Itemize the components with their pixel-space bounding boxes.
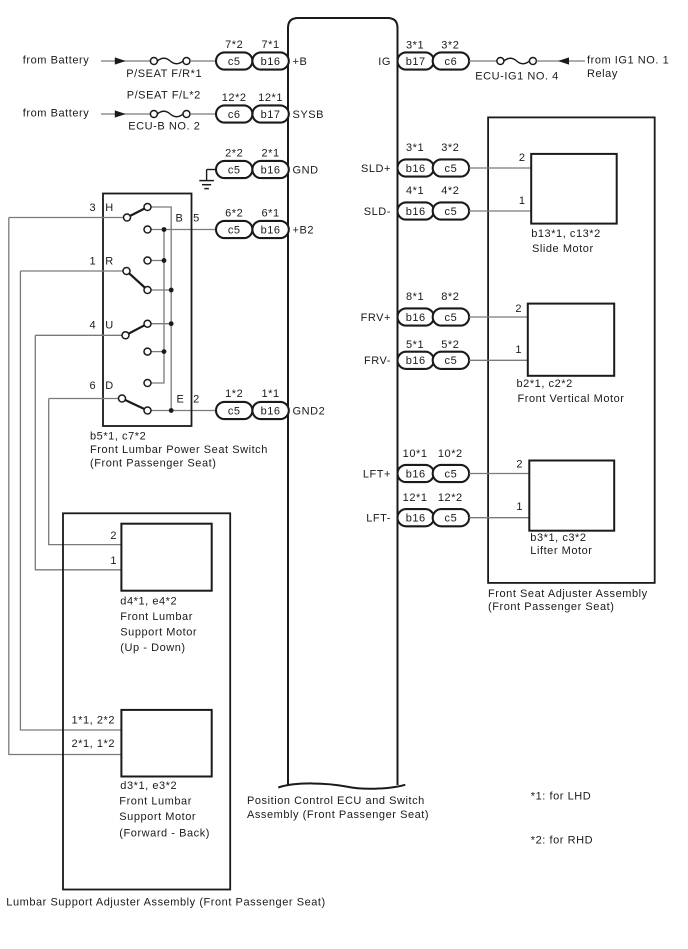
svg-text:Position Control ECU and Switc: Position Control ECU and Switch: [247, 795, 425, 807]
svg-text:2: 2: [519, 152, 526, 164]
contact H common: [124, 214, 131, 221]
pin label 8*2: [441, 291, 459, 303]
junction bus B at +B2 output: [162, 227, 167, 232]
pin label 5*2: [441, 339, 459, 351]
pin SYSB: [293, 109, 325, 121]
pin label 4*1: [406, 185, 424, 197]
svg-text:P/SEAT F/R*1: P/SEAT F/R*1: [126, 68, 202, 80]
connector b16 (SLD- row): [398, 202, 434, 219]
motor M4 Front Lumbar Support Motor (Up-Down) box: [121, 524, 211, 591]
svg-text:Slide Motor: Slide Motor: [532, 243, 594, 255]
svg-text:3*1: 3*1: [406, 142, 424, 154]
label Front Seat Adjuster Assembly: [488, 588, 648, 613]
fuse P/SEAT F/R*1: [150, 58, 190, 65]
motor M5 Front Lumbar Support Motor (Forward-Back) box: [121, 710, 211, 777]
arrow current direction +B: [115, 57, 126, 64]
svg-text:4*2: 4*2: [441, 185, 459, 197]
svg-text:Lifter Motor: Lifter Motor: [530, 545, 592, 557]
svg-text:*1: for LHD: *1: for LHD: [531, 791, 591, 803]
svg-text:b3*1, c3*2: b3*1, c3*2: [530, 532, 586, 544]
contact H lower (+B2): [144, 226, 151, 233]
pin label 1 (switch R): [89, 256, 96, 268]
label d4*1, e4*2 Front Lumbar Support Motor Up-Down: [120, 595, 197, 654]
wire U lower contact to bus B: [148, 351, 165, 353]
junction bus B at U lower: [162, 349, 167, 354]
pin label 7*1: [262, 39, 280, 51]
pin LFT-: [366, 513, 391, 525]
svg-text:IG: IG: [378, 56, 391, 68]
svg-text:3*2: 3*2: [441, 142, 459, 154]
svg-text:6: 6: [89, 380, 96, 392]
contact R lower: [144, 287, 151, 294]
arrow current direction SYSB: [115, 110, 126, 117]
contact U common: [122, 332, 129, 339]
pin label 10*2: [438, 448, 463, 460]
svg-text:2*2: 2*2: [225, 147, 243, 159]
svg-text:b16: b16: [261, 405, 281, 417]
svg-text:SLD+: SLD+: [361, 163, 391, 175]
label from IG1 NO. 1 Relay: [587, 54, 669, 80]
svg-text:5: 5: [193, 212, 200, 224]
pin +B: [293, 56, 308, 68]
pin number 2 (Front Vertical Motor): [515, 303, 522, 315]
svg-text:c5: c5: [445, 513, 458, 525]
pin label 10*1: [403, 448, 428, 460]
pin label E (switch bus): [177, 393, 185, 405]
svg-text:Front Seat Adjuster Assembly: Front Seat Adjuster Assembly: [488, 588, 648, 600]
connector c5 (SLD+ row): [433, 159, 469, 176]
connector b17 (IG row): [398, 52, 434, 69]
svg-text:b16: b16: [406, 468, 426, 480]
contact H upper: [144, 204, 151, 211]
label d3*1, e3*2 Front Lumbar Support Motor Forward-Back: [119, 780, 210, 840]
svg-text:4: 4: [89, 320, 96, 332]
switch arm U: [126, 324, 148, 336]
svg-text:from Battery: from Battery: [23, 108, 90, 120]
svg-text:1*1, 2*2: 1*1, 2*2: [72, 715, 116, 727]
svg-text:R: R: [105, 256, 114, 268]
svg-text:3*1: 3*1: [406, 39, 424, 51]
pin SLD+: [361, 163, 391, 175]
svg-text:b17: b17: [261, 109, 281, 121]
wire fuse to IG1 relay: [536, 60, 585, 62]
pin number 1 (Slide Motor): [519, 195, 526, 207]
svg-text:10*2: 10*2: [438, 448, 463, 460]
wire switch U common to pin 4: [35, 334, 125, 336]
pin GND: [293, 164, 319, 176]
pin number 1 (Front Vertical Motor): [515, 344, 522, 356]
switch arm R: [127, 271, 148, 290]
connector b16 (+B row): [252, 52, 288, 69]
wire switch H common to pin 3: [9, 217, 127, 219]
svg-text:Front Lumbar: Front Lumbar: [119, 796, 192, 808]
svg-text:FRV+: FRV+: [361, 312, 391, 324]
pin label 7*2: [225, 39, 243, 51]
svg-text:1: 1: [110, 555, 117, 567]
connector c5 (GND row): [216, 161, 252, 178]
svg-text:GND2: GND2: [293, 405, 326, 417]
label b13*1, c13*2 Slide Motor: [531, 228, 601, 255]
pin label B (switch bus): [176, 212, 184, 224]
pin label 12*1: [258, 92, 283, 104]
svg-text:from IG1 NO. 1: from IG1 NO. 1: [587, 54, 669, 66]
connector c6 (IG row): [433, 52, 469, 69]
motor M1 Slide Motor box: [531, 154, 617, 224]
svg-text:SYSB: SYSB: [293, 109, 325, 121]
svg-text:b16: b16: [261, 164, 281, 176]
note *1 for LHD: [531, 791, 591, 803]
svg-text:12*1: 12*1: [258, 92, 283, 104]
pin label 5*1: [406, 339, 424, 351]
svg-text:4*1: 4*1: [406, 185, 424, 197]
svg-text:P/SEAT F/L*2: P/SEAT F/L*2: [127, 89, 201, 101]
connector b17 (SYSB row): [252, 105, 288, 122]
pin label 3*2 (IG): [441, 39, 459, 51]
pin FRV+: [361, 312, 391, 324]
pin +B2: [293, 224, 315, 236]
contact D lower (GND2): [144, 407, 151, 414]
svg-text:1: 1: [519, 195, 526, 207]
svg-text:3*2: 3*2: [441, 39, 459, 51]
wire connector c6 to fuse ECU-IG1: [469, 60, 497, 62]
wire R lower contact to bus E: [148, 289, 172, 291]
svg-text:10*1: 10*1: [403, 448, 428, 460]
wire switch D common to pin 6: [49, 398, 122, 400]
wire LFT+ to motor: [469, 473, 529, 475]
connector c5 (GND2 row): [216, 402, 252, 419]
svg-text:D: D: [105, 380, 114, 392]
label ECU-IG1 NO. 4: [475, 70, 559, 82]
switch arm H: [127, 207, 148, 218]
svg-text:c5: c5: [445, 206, 458, 218]
wire bus B (line1): [148, 230, 165, 384]
svg-text:ECU-B NO. 2: ECU-B NO. 2: [128, 121, 200, 133]
pin label 2 (switch): [193, 393, 200, 405]
op-amp U1 Position Control ECU and Switch Assembly outline: [278, 18, 405, 789]
svg-text:2: 2: [516, 458, 523, 470]
svg-text:c5: c5: [445, 312, 458, 324]
pin FRV-: [364, 355, 391, 367]
svg-text:7*1: 7*1: [262, 39, 280, 51]
wire from Battery to fuse P/SEAT: [101, 60, 150, 62]
pin label 12*2: [438, 492, 463, 504]
label from Battery (+B feed): [23, 54, 90, 66]
pin label 1*1, 2*2 (lumbar FB motor): [72, 715, 116, 727]
svg-text:b13*1, c13*2: b13*1, c13*2: [531, 228, 601, 240]
svg-text:Assembly (Front Passenger Seat: Assembly (Front Passenger Seat): [247, 809, 429, 821]
connector b16 (+B2 row): [252, 221, 288, 238]
wire SLD- to motor: [469, 210, 531, 212]
svg-text:2: 2: [110, 530, 117, 542]
assembly box Front Seat Adjuster: [488, 117, 655, 583]
svg-text:d3*1, e3*2: d3*1, e3*2: [120, 780, 177, 792]
svg-text:*2: for RHD: *2: for RHD: [531, 835, 593, 847]
svg-text:12*1: 12*1: [403, 492, 428, 504]
contact U upper: [144, 320, 151, 327]
pin label 6*2: [225, 207, 243, 219]
pin label 3*2: [441, 142, 459, 154]
svg-text:LFT-: LFT-: [366, 513, 391, 525]
pin label 6*1: [262, 207, 280, 219]
label ECU-B NO. 2: [128, 121, 200, 133]
svg-text:b16: b16: [261, 56, 281, 68]
svg-text:U: U: [105, 320, 114, 332]
pin label 3 (switch H): [89, 202, 96, 214]
label H: [105, 202, 114, 214]
svg-text:(Front Passenger Seat): (Front Passenger Seat): [488, 601, 614, 613]
svg-text:Front Lumbar: Front Lumbar: [120, 611, 193, 623]
pin number 2 (Slide Motor): [519, 152, 526, 164]
label from Battery (SYSB feed): [23, 108, 90, 120]
svg-text:+B2: +B2: [293, 224, 315, 236]
label D: [105, 380, 114, 392]
svg-text:Front Vertical Motor: Front Vertical Motor: [518, 393, 625, 405]
pin label 12*2: [222, 92, 247, 104]
wire rail D (pin 6) to lumbar motor UD pin 2: [49, 399, 122, 545]
svg-text:1: 1: [516, 501, 523, 513]
pin label 6 (switch D): [89, 380, 96, 392]
pin GND2: [293, 405, 326, 417]
connector c6 (SYSB row): [216, 105, 252, 122]
svg-text:b16: b16: [406, 163, 426, 175]
svg-text:Front Lumbar Power Seat Switch: Front Lumbar Power Seat Switch: [90, 444, 268, 456]
assembly box Lumbar Support Adjuster: [63, 513, 230, 889]
svg-text:5*1: 5*1: [406, 339, 424, 351]
connector b16 (SLD+ row): [398, 159, 434, 176]
svg-text:1: 1: [515, 344, 522, 356]
pin label 4 (switch U): [89, 320, 96, 332]
connector c5 (LFT- row): [433, 509, 469, 526]
svg-text:c5: c5: [445, 468, 458, 480]
switch arm D: [122, 399, 148, 411]
svg-text:2: 2: [193, 393, 200, 405]
svg-text:SLD-: SLD-: [364, 206, 391, 218]
contact U lower: [144, 348, 151, 355]
connector c5 (+B2 row): [216, 221, 252, 238]
svg-text:1*2: 1*2: [225, 388, 243, 400]
svg-text:8*1: 8*1: [406, 291, 424, 303]
connector c5 (+B row): [216, 52, 252, 69]
wire rail U (pin 4) to lumbar motor UD pin 1: [35, 335, 121, 570]
svg-text:7*2: 7*2: [225, 39, 243, 51]
wire rail H (pin 3) to lumbar motor FB pin: [9, 218, 122, 755]
pin label 5 (switch): [193, 212, 200, 224]
svg-text:2*1: 2*1: [262, 147, 280, 159]
svg-text:3: 3: [89, 202, 96, 214]
svg-text:b16: b16: [406, 312, 426, 324]
svg-text:(Up - Down): (Up - Down): [120, 642, 185, 654]
svg-text:E: E: [177, 393, 185, 405]
svg-text:5*2: 5*2: [441, 339, 459, 351]
svg-text:c5: c5: [228, 164, 241, 176]
svg-text:c6: c6: [228, 109, 241, 121]
wire fuse to connector c5 (+B): [190, 60, 216, 62]
label Lumbar Support Adjuster Assembly: [6, 897, 325, 909]
pin label 2*1, 1*2 (lumbar FB motor): [72, 738, 116, 750]
pin number 2 (lumbar UD motor): [110, 530, 117, 542]
wire R upper contact to bus B: [148, 260, 165, 262]
wire FRV- to motor: [469, 359, 528, 361]
pin IG: [378, 56, 391, 68]
svg-text:12*2: 12*2: [222, 92, 247, 104]
svg-text:b2*1, c2*2: b2*1, c2*2: [517, 378, 573, 390]
label b5*1, c7*2 Front Lumbar Power Seat Switch: [90, 430, 268, 469]
pin label 1*2: [225, 388, 243, 400]
connector b16 (LFT+ row): [398, 465, 434, 482]
label Position Control ECU and Switch Assembly: [247, 795, 429, 821]
wire LFT- to motor: [469, 517, 529, 519]
wire SLD+ to motor: [469, 167, 531, 169]
svg-text:from Battery: from Battery: [23, 54, 90, 66]
svg-text:2: 2: [515, 303, 522, 315]
svg-text:Support Motor: Support Motor: [120, 627, 197, 639]
junction bus E at GND2 output: [169, 408, 174, 413]
wire from Battery to fuse ECU-B: [101, 113, 150, 115]
motor M2 Front Vertical Motor box: [528, 304, 614, 376]
svg-text:b16: b16: [406, 355, 426, 367]
junction bus B at R upper: [162, 258, 167, 263]
wire FRV+ to motor: [469, 316, 528, 318]
connector c5 (FRV+ row): [433, 308, 469, 325]
svg-text:Relay: Relay: [587, 68, 618, 80]
connector b16 (FRV+ row): [398, 308, 434, 325]
connector b16 (GND row): [252, 161, 288, 178]
svg-text:8*2: 8*2: [441, 291, 459, 303]
junction bus E at R lower: [169, 288, 174, 293]
svg-text:c5: c5: [228, 405, 241, 417]
pin label 1*1: [262, 388, 280, 400]
svg-text:b16: b16: [261, 224, 281, 236]
svg-text:6*1: 6*1: [262, 207, 280, 219]
svg-text:H: H: [105, 202, 114, 214]
pin number 1 (Lifter Motor): [516, 501, 523, 513]
svg-text:(Front Passenger Seat): (Front Passenger Seat): [90, 457, 216, 469]
svg-text:ECU-IG1 NO. 4: ECU-IG1 NO. 4: [475, 70, 559, 82]
svg-text:B: B: [176, 212, 184, 224]
svg-text:c5: c5: [228, 56, 241, 68]
label b3*1, c3*2 Lifter Motor: [530, 532, 592, 557]
svg-text:FRV-: FRV-: [364, 355, 391, 367]
motor M3 Lifter Motor box: [529, 461, 614, 531]
connector b16 (LFT- row): [398, 509, 434, 526]
label P/SEAT F/L*2: [127, 89, 201, 101]
pin label 12*1: [403, 492, 428, 504]
wire switch R common to pin 1: [20, 270, 126, 272]
svg-text:b5*1, c7*2: b5*1, c7*2: [90, 430, 146, 442]
ground symbol: [199, 170, 216, 189]
pin LFT+: [363, 468, 391, 480]
pin SLD-: [364, 206, 391, 218]
label b2*1, c2*2 Front Vertical Motor: [517, 378, 625, 405]
wire U upper contact to bus E: [148, 323, 172, 325]
connector b16 (FRV- row): [398, 352, 434, 369]
svg-text:1: 1: [89, 256, 96, 268]
label U: [105, 320, 114, 332]
pin label 3*1: [406, 142, 424, 154]
svg-text:b16: b16: [406, 513, 426, 525]
switch S1 Front Lumbar Power Seat Switch box: [103, 194, 192, 427]
contact R common: [123, 268, 130, 275]
wire rail R (pin 1) to lumbar motor FB pin: [20, 271, 121, 730]
junction bus E at U upper: [169, 321, 174, 326]
pin number 1 (lumbar UD motor): [110, 555, 117, 567]
contact D common: [119, 395, 126, 402]
svg-text:6*2: 6*2: [225, 207, 243, 219]
pin label 2*1: [262, 147, 280, 159]
svg-text:Support Motor: Support Motor: [119, 811, 196, 823]
wire switch E output to connector (GND2): [148, 410, 217, 412]
pin label 3*1 (IG): [406, 39, 424, 51]
svg-text:b17: b17: [406, 56, 426, 68]
svg-text:c5: c5: [228, 224, 241, 236]
pin number 2 (Lifter Motor): [516, 458, 523, 470]
wire fuse to connector c6 (SYSB): [190, 113, 216, 115]
contact R upper: [144, 257, 151, 264]
svg-text:12*2: 12*2: [438, 492, 463, 504]
wire bus E (line2): [148, 207, 172, 411]
svg-text:+B: +B: [293, 56, 308, 68]
note *2 for RHD: [531, 835, 593, 847]
svg-text:GND: GND: [293, 164, 319, 176]
wire switch B output to connector (+B2): [148, 229, 217, 231]
connector c5 (LFT+ row): [433, 465, 469, 482]
svg-text:2*1, 1*2: 2*1, 1*2: [72, 738, 116, 750]
pin label 2*2: [225, 147, 243, 159]
connector c5 (FRV- row): [433, 352, 469, 369]
arrow current direction IG: [558, 57, 569, 64]
fuse ECU-B NO. 2: [150, 111, 190, 118]
svg-text:1*1: 1*1: [262, 388, 280, 400]
pin label 4*2: [441, 185, 459, 197]
label R: [105, 256, 114, 268]
svg-text:c6: c6: [445, 56, 458, 68]
svg-text:d4*1, e4*2: d4*1, e4*2: [120, 595, 177, 607]
svg-text:(Forward - Back): (Forward - Back): [119, 827, 210, 839]
pin label 8*1: [406, 291, 424, 303]
connector b16 (GND2 row): [252, 402, 288, 419]
svg-text:Lumbar Support Adjuster Assemb: Lumbar Support Adjuster Assembly (Front …: [6, 897, 325, 909]
svg-text:c5: c5: [445, 163, 458, 175]
label P/SEAT F/R*1: [126, 68, 202, 80]
svg-text:c5: c5: [445, 355, 458, 367]
connector c5 (SLD- row): [433, 202, 469, 219]
contact D upper: [144, 380, 151, 387]
fuse ECU-IG1 NO. 4: [497, 58, 537, 65]
svg-text:b16: b16: [406, 206, 426, 218]
svg-text:LFT+: LFT+: [363, 468, 391, 480]
